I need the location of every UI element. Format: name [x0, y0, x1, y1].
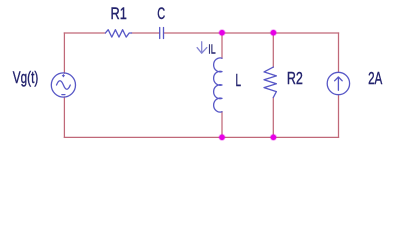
- svg-text:R1: R1: [111, 5, 127, 23]
- svg-text:C: C: [157, 5, 165, 23]
- svg-text:IL: IL: [208, 41, 215, 56]
- svg-text:R2: R2: [287, 68, 303, 88]
- svg-text:L: L: [236, 70, 242, 90]
- svg-text:Vg(t): Vg(t): [13, 69, 39, 87]
- svg-text:2A: 2A: [368, 68, 383, 88]
